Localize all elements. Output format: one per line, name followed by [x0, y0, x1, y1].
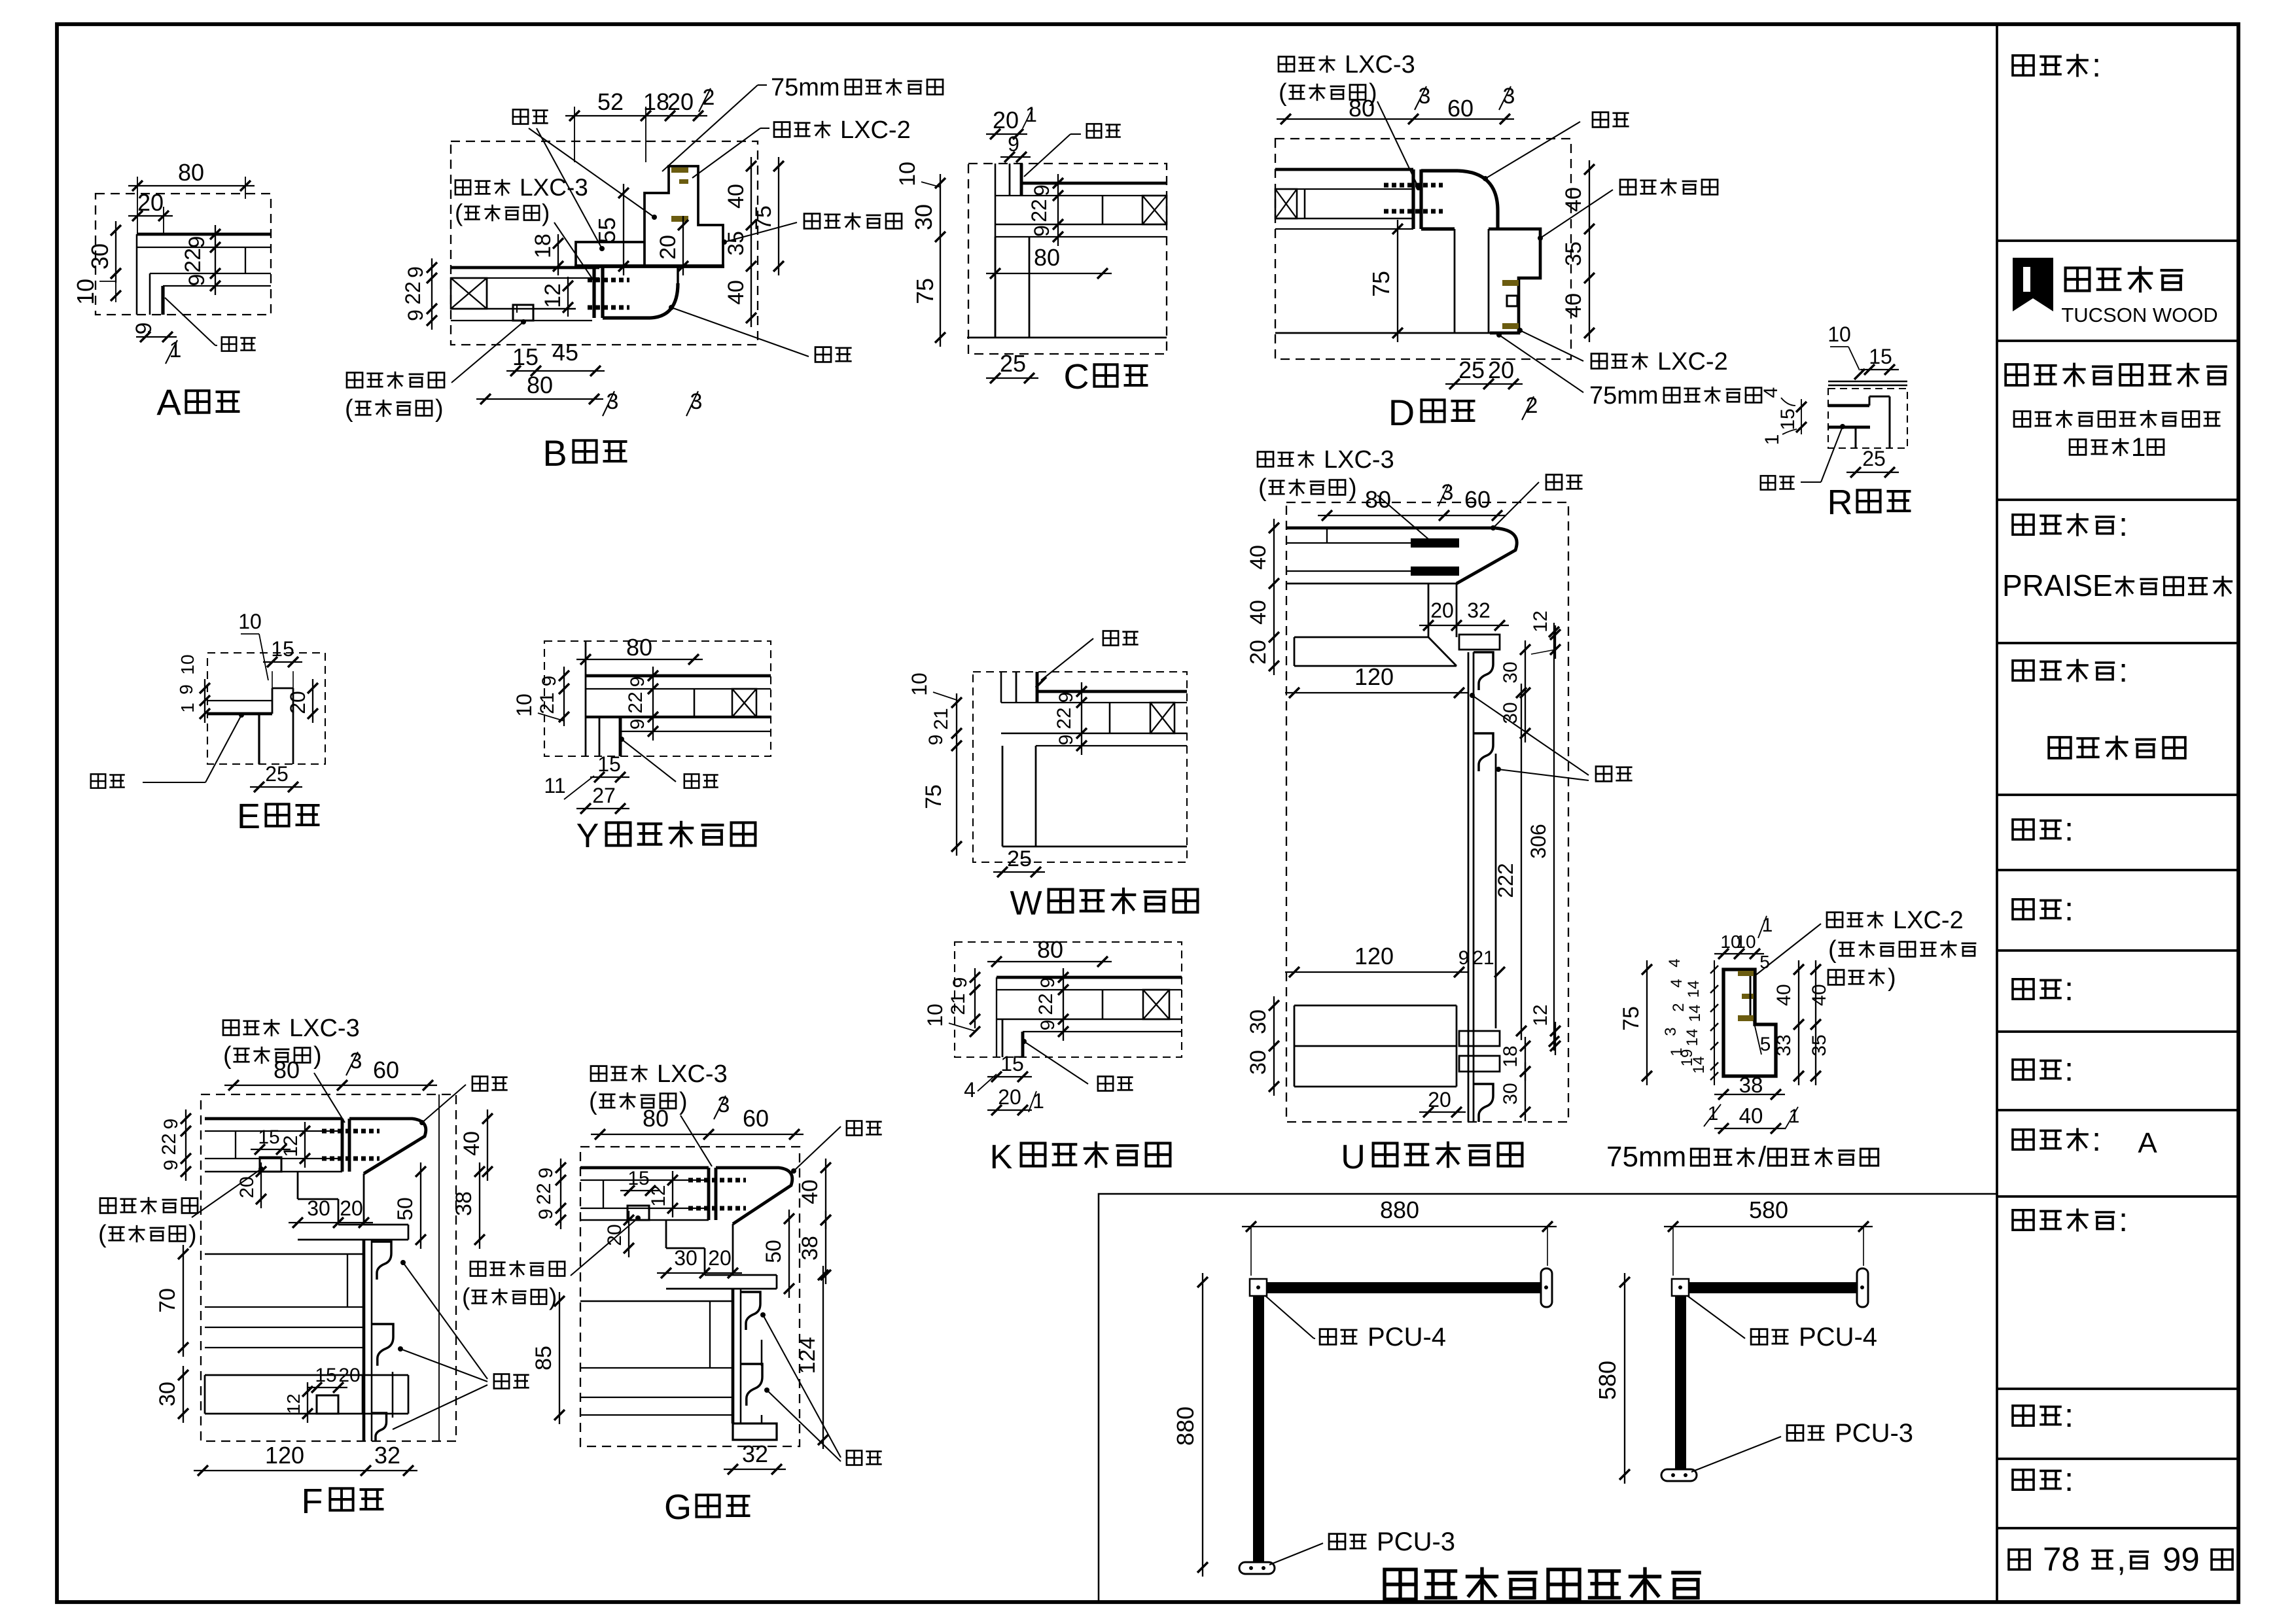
- detail C: dashed box: [968, 164, 1167, 354]
- detail C: left dims 10 30 75: [895, 162, 945, 347]
- svg-text:11: 11: [544, 774, 565, 797]
- detail K: left dims 9 21 10: [923, 968, 980, 1037]
- svg-text:3: 3: [690, 389, 703, 414]
- detail U: labels LXC-3: [1258, 446, 1433, 543]
- svg-text:LXC-3: LXC-3: [289, 1015, 360, 1042]
- detail B: dim 20 block: [656, 216, 688, 275]
- svg-text:40: 40: [798, 1179, 822, 1204]
- svg-text:PRAISE: PRAISE: [2002, 568, 2113, 602]
- svg-text:25: 25: [1862, 447, 1886, 470]
- svg-text:15: 15: [597, 752, 621, 776]
- detail D: caption: [1388, 392, 1475, 433]
- detail Y: caption: [576, 817, 756, 855]
- detail G: top panel: [580, 1168, 709, 1220]
- detail F: right thin wall: [438, 1094, 440, 1441]
- svg-text:9: 9: [535, 1168, 557, 1179]
- svg-text::: :: [2064, 890, 2074, 928]
- detail B: cross box: [451, 278, 487, 309]
- detail F: shelf: [298, 1225, 408, 1240]
- detail D: skirting teeth: [1502, 280, 1519, 329]
- svg-text:1: 1: [1025, 103, 1037, 126]
- detail B: screw symbols: [588, 280, 629, 307]
- detail E: profile: [207, 688, 293, 764]
- svg-text:40: 40: [724, 280, 749, 305]
- svg-text:30: 30: [1246, 1009, 1271, 1034]
- svg-text:9: 9: [1055, 692, 1077, 703]
- detail D: dashed box: [1275, 139, 1571, 359]
- detail W: fabric verticals: [1001, 672, 1037, 703]
- detail W: middle dims 9 22 9: [1053, 682, 1087, 755]
- detail G: step: [666, 1220, 733, 1275]
- svg-text:F: F: [302, 1482, 323, 1521]
- svg-text:80: 80: [1349, 95, 1375, 122]
- detail B: left dims 9 22 9: [401, 258, 437, 330]
- detail F: dim 50: [393, 1162, 426, 1249]
- svg-text:PCU-4: PCU-4: [1368, 1323, 1446, 1352]
- corner rod 1: end cap: [1541, 1268, 1552, 1307]
- svg-text:B: B: [542, 432, 567, 474]
- svg-text:30: 30: [1246, 1050, 1271, 1075]
- svg-text:U: U: [1341, 1138, 1366, 1176]
- detail Y: dim 80: [576, 634, 703, 665]
- corner rod 2: end cap: [1857, 1268, 1868, 1307]
- corner rod 1: floor flange: [1239, 1562, 1275, 1574]
- svg-text::: :: [2064, 1397, 2074, 1434]
- svg-text:25: 25: [1000, 350, 1026, 377]
- detail D: leather nose curve: [1421, 171, 1498, 229]
- detail B: bottom dims 15 45: [506, 339, 605, 376]
- svg-text::: :: [2092, 1121, 2101, 1158]
- svg-text:D: D: [1388, 392, 1415, 433]
- svg-text:20: 20: [1488, 357, 1514, 383]
- svg-text:18: 18: [1500, 1045, 1521, 1067]
- detail U: top dims 80 3 60: [1318, 480, 1506, 521]
- detail D: thick verticals: [1413, 169, 1421, 229]
- svg-text:880: 880: [1172, 1406, 1199, 1446]
- corner rod 2: label PCU-3: [1691, 1419, 1913, 1472]
- svg-text:9: 9: [185, 274, 209, 287]
- svg-text:3: 3: [607, 389, 619, 414]
- detail C: caption: [1064, 357, 1148, 396]
- svg-text:22: 22: [181, 248, 205, 273]
- detail Y: wall vertical: [585, 641, 587, 756]
- svg-text:5: 5: [1759, 952, 1770, 972]
- svg-text:1: 1: [177, 703, 198, 713]
- detail G: caption: [664, 1488, 750, 1527]
- detail G: leather hooks: [741, 1292, 762, 1423]
- detail A: dim 30: [86, 221, 121, 283]
- detail D: label LXC-2: [1517, 328, 1728, 375]
- detail B: lower panel: [451, 268, 599, 321]
- svg-text:80: 80: [626, 634, 652, 661]
- skirting detail: bottom dims 38 40 1 1: [1704, 1073, 1799, 1134]
- svg-text:50: 50: [393, 1197, 417, 1221]
- detail G: shelf: [666, 1275, 777, 1289]
- detail G: dim 85: [531, 1292, 565, 1424]
- svg-text:): ): [542, 200, 550, 226]
- svg-text::: :: [2119, 506, 2128, 543]
- svg-text:10: 10: [238, 610, 262, 633]
- svg-text:38: 38: [451, 1191, 476, 1216]
- svg-text:(: (: [223, 1042, 232, 1070]
- svg-text:K: K: [990, 1138, 1013, 1176]
- title: order number label: [2013, 46, 2101, 84]
- svg-text:20: 20: [1430, 599, 1454, 622]
- title: owner confirm row: [2013, 1201, 2128, 1238]
- detail D: label 水性仿真皮: [1538, 179, 1718, 241]
- svg-text:9: 9: [539, 676, 560, 687]
- detail U: label 真皮 middle: [1470, 693, 1633, 781]
- detail D: label 真皮: [1483, 113, 1629, 181]
- corner rod 2: dim 580 horizontal: [1664, 1196, 1873, 1276]
- svg-text:30: 30: [155, 1382, 180, 1406]
- svg-text:(: (: [1279, 79, 1287, 107]
- svg-text:): ): [679, 1088, 688, 1115]
- svg-text:35: 35: [1561, 241, 1586, 266]
- svg-text:222: 222: [1494, 863, 1517, 898]
- detail F: strip light top: [260, 1157, 281, 1172]
- title: version row: [2013, 1121, 2157, 1159]
- svg-text:40: 40: [1246, 545, 1271, 570]
- svg-text:60: 60: [373, 1056, 399, 1083]
- svg-text:PCU-3: PCU-3: [1835, 1419, 1913, 1448]
- detail G: leather nose: [709, 1168, 792, 1224]
- detail B: dim 55: [593, 184, 629, 275]
- corner rod 2: horizontal bar: [1677, 1282, 1862, 1293]
- svg-text:2: 2: [1526, 393, 1538, 418]
- svg-text:12: 12: [1530, 610, 1551, 632]
- svg-text:): ): [313, 1042, 322, 1070]
- svg-text:20: 20: [137, 189, 164, 216]
- detail U: dims 306 222: [1494, 623, 1559, 1051]
- svg-text:70: 70: [155, 1288, 180, 1313]
- svg-text:40: 40: [1561, 187, 1586, 212]
- svg-text:120: 120: [1354, 663, 1394, 690]
- detail A: panel lines: [137, 234, 271, 286]
- detail U: dim 120 top: [1285, 663, 1468, 698]
- svg-text:50: 50: [762, 1240, 785, 1263]
- svg-text:9: 9: [160, 1160, 182, 1171]
- svg-text:80: 80: [1037, 936, 1063, 963]
- svg-text:4: 4: [1760, 387, 1782, 398]
- svg-text:20: 20: [604, 1224, 626, 1246]
- title: drawing number row: [2013, 1461, 2074, 1498]
- detail F: label strip light: [98, 1166, 264, 1248]
- detail G: left dims 9 22 9: [533, 1159, 566, 1229]
- skirting detail: label LXC-2: [1756, 907, 1976, 992]
- detail F: top panel: [205, 1119, 342, 1172]
- svg-text:14: 14: [1690, 1056, 1708, 1074]
- corner rod 1: dim 880 horizontal: [1242, 1196, 1557, 1276]
- detail K: dashed box: [955, 942, 1182, 1057]
- svg-text:Y: Y: [576, 817, 599, 855]
- svg-text:12: 12: [280, 1135, 302, 1157]
- detail G: bottom cap: [733, 1423, 777, 1440]
- detail Y: fabric label: [619, 737, 718, 788]
- detail U: left dims 30 30 bottom: [1246, 996, 1279, 1096]
- detail K: panel lines: [997, 977, 1182, 1032]
- svg-text:22: 22: [401, 281, 425, 305]
- detail R: top double line: [1828, 381, 1907, 385]
- title: company name: [2005, 363, 2227, 462]
- detail G: right dims 40 38 124: [795, 1159, 831, 1449]
- detail R: profile: [1828, 396, 1890, 448]
- svg-text:32: 32: [742, 1440, 768, 1467]
- detail G: dim 50: [762, 1210, 794, 1298]
- svg-text:9: 9: [627, 719, 648, 730]
- svg-text:12: 12: [1530, 1004, 1551, 1026]
- svg-text:30: 30: [86, 243, 113, 270]
- detail A: mark 1: [166, 338, 181, 364]
- svg-text:14: 14: [1684, 1029, 1701, 1047]
- detail Y: middle dims 9 22 9: [625, 667, 658, 741]
- detail U: screw bars: [1411, 538, 1459, 576]
- svg-text:27: 27: [592, 784, 616, 807]
- svg-text:9: 9: [185, 236, 209, 249]
- svg-text:40: 40: [724, 184, 749, 209]
- svg-text:W: W: [1010, 884, 1042, 922]
- detail F: hanging panel: [364, 1240, 372, 1441]
- detail W: panel lines: [1001, 691, 1187, 746]
- svg-text:PCU-4: PCU-4: [1799, 1323, 1877, 1352]
- svg-text:12: 12: [648, 1185, 669, 1206]
- svg-text:1: 1: [2131, 433, 2146, 462]
- detail F: caption: [302, 1482, 384, 1521]
- detail D: screws: [1384, 185, 1443, 211]
- svg-text:): ): [1888, 964, 1896, 992]
- svg-text:G: G: [664, 1488, 692, 1527]
- svg-text:40: 40: [1246, 600, 1271, 625]
- detail U: left dims 40 40 20: [1246, 519, 1279, 675]
- detail F: dashed box: [201, 1094, 456, 1441]
- detail C: wall vertical: [995, 164, 997, 338]
- detail F: leather nose: [342, 1119, 426, 1174]
- skirting detail: dim 75: [1619, 960, 1652, 1085]
- svg-text:20: 20: [236, 1176, 258, 1198]
- svg-text:9: 9: [1037, 977, 1059, 988]
- svg-text:LXC-3: LXC-3: [657, 1060, 728, 1088]
- svg-text:80: 80: [1034, 244, 1060, 271]
- svg-text:15: 15: [258, 1126, 279, 1148]
- title block grid: [1997, 24, 2238, 1602]
- logo mark TUCSON WOOD: [2013, 258, 2218, 326]
- detail G: wardrobe lines: [580, 1301, 732, 1415]
- detail F: leather hooks: [372, 1242, 393, 1442]
- svg-text:80: 80: [274, 1056, 300, 1083]
- detail R: caption: [1828, 483, 1911, 522]
- detail U: dim 20 bottom: [1419, 1088, 1466, 1117]
- svg-text:75mm: 75mm: [1589, 382, 1659, 410]
- corner rod 2: label PCU-4: [1687, 1296, 1877, 1352]
- detail A: wall verticals: [137, 234, 150, 315]
- detail G: mark 3: [714, 1092, 730, 1119]
- svg-text:20: 20: [338, 1365, 360, 1386]
- detail A: dim 80: [128, 159, 255, 234]
- svg-text:): ): [188, 1221, 197, 1248]
- detail F: wardrobe lines: [205, 1254, 362, 1348]
- svg-text:38: 38: [1739, 1073, 1763, 1097]
- svg-text:22: 22: [1027, 199, 1051, 222]
- svg-text:20: 20: [998, 1085, 1021, 1109]
- skirting detail: mark 5 lower: [1754, 1021, 1771, 1055]
- corner rod 2: corner plate: [1672, 1279, 1689, 1296]
- svg-text:9: 9: [1055, 735, 1077, 746]
- svg-text:LXC-2: LXC-2: [1657, 348, 1728, 375]
- detail E: dashed box: [207, 653, 325, 764]
- detail F: screws: [322, 1131, 380, 1159]
- detail G: label 真皮 top: [791, 1121, 882, 1174]
- corner rod 1: corner plate: [1250, 1279, 1267, 1296]
- detail A: fabric line: [161, 286, 164, 315]
- detail B: profile teeth LXC-2: [671, 167, 688, 222]
- svg-text:9: 9: [1030, 184, 1053, 196]
- corner rod 2: dim 580 vertical: [1594, 1273, 1630, 1484]
- detail U: dim 120 bottom 9 21: [1285, 943, 1505, 977]
- detail K: caption: [990, 1138, 1171, 1176]
- svg-text:(: (: [589, 1088, 597, 1115]
- svg-text:75: 75: [751, 205, 776, 230]
- detail F: dim 30 bottom: [155, 1366, 188, 1423]
- svg-text:30: 30: [307, 1196, 330, 1220]
- svg-text:75: 75: [1368, 271, 1394, 297]
- svg-text:E: E: [237, 797, 260, 836]
- detail C: dim 80: [986, 244, 1112, 279]
- svg-text:21: 21: [947, 993, 969, 1015]
- svg-text:3: 3: [350, 1049, 362, 1073]
- detail G: label strip light left: [462, 1215, 641, 1310]
- svg-text:5: 5: [1760, 1034, 1771, 1055]
- svg-text:): ): [1349, 474, 1357, 502]
- detail R: dim 15 top: [1860, 345, 1899, 375]
- detail K: dims 15 4 20 1: [964, 1052, 1044, 1115]
- svg-text:75mm: 75mm: [771, 74, 840, 101]
- svg-text:3: 3: [1441, 480, 1454, 505]
- detail B: top dims 52 18 20: [565, 88, 707, 162]
- detail C: fabric verticals: [1010, 164, 1021, 196]
- svg-text:32: 32: [374, 1442, 400, 1469]
- svg-text:12: 12: [540, 283, 565, 308]
- svg-text:1: 1: [1033, 1089, 1044, 1113]
- svg-text:9: 9: [627, 676, 648, 688]
- svg-text:1: 1: [1761, 434, 1783, 445]
- svg-text:LXC-3: LXC-3: [520, 174, 588, 201]
- detail D: panel lines: [1275, 169, 1413, 229]
- title: scale row: [2013, 1397, 2074, 1434]
- svg-text:99: 99: [2163, 1541, 2200, 1578]
- svg-text:20: 20: [340, 1196, 363, 1220]
- detail R: left dims 4 15 1: [1760, 387, 1807, 445]
- svg-text:22: 22: [158, 1133, 180, 1155]
- svg-text:75: 75: [911, 278, 938, 304]
- svg-text:80: 80: [178, 159, 204, 186]
- svg-text::: :: [2064, 1461, 2074, 1498]
- svg-text:1: 1: [169, 338, 182, 362]
- detail D: dim 75: [1368, 220, 1403, 342]
- detail Y: dim 27: [576, 784, 629, 814]
- detail D: right dims 40 35 40: [1561, 160, 1595, 342]
- svg-text:20: 20: [1428, 1088, 1451, 1111]
- svg-text:14: 14: [1686, 1005, 1704, 1022]
- svg-text:10: 10: [1735, 932, 1756, 952]
- svg-text:3: 3: [1503, 84, 1515, 109]
- detail Y: mark 11: [544, 774, 594, 799]
- svg-text:4: 4: [1668, 979, 1686, 987]
- svg-text:25: 25: [1458, 357, 1485, 383]
- detail G: dashed box: [580, 1147, 800, 1446]
- svg-text:15: 15: [271, 637, 294, 661]
- detail E: dim 20: [286, 679, 318, 723]
- svg-text:C: C: [1064, 357, 1089, 396]
- svg-text:(: (: [462, 1283, 470, 1310]
- svg-text:124: 124: [795, 1337, 820, 1374]
- svg-text:33: 33: [1773, 1034, 1795, 1056]
- detail U: dashed box: [1286, 502, 1568, 1122]
- detail U: dims 20 32: [1419, 599, 1509, 631]
- svg-text:9: 9: [949, 977, 971, 988]
- svg-text:9: 9: [160, 1119, 182, 1130]
- svg-text:12: 12: [283, 1393, 304, 1414]
- detail C: dim 25: [986, 350, 1038, 383]
- detail E: left small dims: [176, 654, 210, 723]
- detail F: left dims 9 22 9: [158, 1109, 191, 1181]
- svg-text:20: 20: [667, 88, 694, 115]
- svg-text:306: 306: [1527, 824, 1550, 858]
- svg-text:20: 20: [708, 1246, 732, 1270]
- corner rod 1: label PCU-3: [1269, 1527, 1455, 1565]
- svg-text:3: 3: [1419, 84, 1431, 109]
- svg-text:): ): [549, 1283, 557, 1310]
- svg-text:(: (: [1828, 936, 1837, 964]
- svg-text:3: 3: [718, 1092, 730, 1117]
- detail U: rail verticals: [1468, 652, 1474, 1122]
- detail D: lower columns: [1275, 229, 1500, 333]
- detail B: strip light: [513, 305, 533, 321]
- title: page row: [2009, 1541, 2233, 1578]
- corner rod 1: dim 880 vertical: [1172, 1273, 1208, 1577]
- detail G: labels LXC-3: [589, 1060, 728, 1166]
- svg-text:20: 20: [286, 691, 309, 714]
- svg-text:R: R: [1828, 483, 1853, 522]
- detail A: dims 9 22 9: [181, 225, 221, 295]
- svg-text:10: 10: [512, 693, 536, 717]
- detail R: dashed box: [1828, 389, 1907, 448]
- detail E: fabric label: [91, 712, 244, 788]
- svg-text:30: 30: [910, 204, 937, 230]
- detail U: bottom shelves: [1294, 1005, 1457, 1087]
- detail F: bottom dims 120 32: [194, 1442, 417, 1476]
- detail B: bottom dim 80: [476, 372, 603, 404]
- svg-text:30: 30: [1500, 661, 1521, 683]
- detail B: label strip light: [345, 319, 526, 423]
- detail R: dim 25: [1846, 447, 1899, 478]
- detail B: dim 12: [540, 277, 573, 317]
- detail D: skirting profile: [1489, 229, 1540, 333]
- detail G: top dims 80 60: [591, 1105, 804, 1140]
- detail G: hanging panel: [733, 1289, 741, 1423]
- svg-text:TUCSON WOOD: TUCSON WOOD: [2061, 304, 2217, 326]
- detail Y: cross box: [694, 689, 756, 717]
- detail G: screws: [688, 1180, 746, 1208]
- detail Y: left dims 9 21 10: [512, 667, 569, 726]
- detail B: label 真皮: [669, 305, 852, 362]
- svg-text:40: 40: [1739, 1104, 1763, 1128]
- svg-text:9: 9: [1037, 1020, 1059, 1031]
- svg-text:75: 75: [1619, 1006, 1644, 1031]
- svg-text:15: 15: [627, 1168, 649, 1189]
- svg-text:80: 80: [1365, 486, 1391, 513]
- detail C: dims 20 1 9: [986, 103, 1037, 162]
- svg-text:30: 30: [674, 1246, 698, 1270]
